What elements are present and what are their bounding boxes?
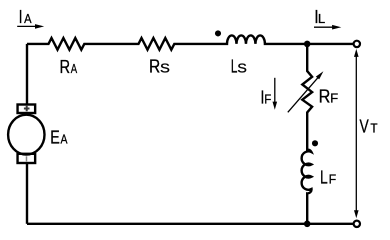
svg-text:R: R bbox=[319, 85, 331, 106]
svg-text:S: S bbox=[160, 61, 170, 76]
svg-text:V: V bbox=[360, 116, 370, 137]
svg-text:A: A bbox=[61, 131, 68, 146]
svg-text:F: F bbox=[329, 171, 337, 186]
svg-text:E: E bbox=[50, 126, 60, 147]
svg-text:A: A bbox=[24, 11, 32, 26]
svg-text:T: T bbox=[370, 121, 377, 136]
svg-text:I: I bbox=[19, 6, 23, 27]
svg-text:F: F bbox=[330, 90, 338, 105]
svg-text:S: S bbox=[237, 61, 247, 76]
svg-text:R: R bbox=[60, 56, 71, 77]
svg-text:A: A bbox=[71, 61, 78, 76]
svg-text:L: L bbox=[320, 166, 328, 187]
svg-text:F: F bbox=[264, 91, 271, 106]
svg-text:L: L bbox=[318, 11, 325, 26]
svg-text:R: R bbox=[149, 56, 160, 77]
